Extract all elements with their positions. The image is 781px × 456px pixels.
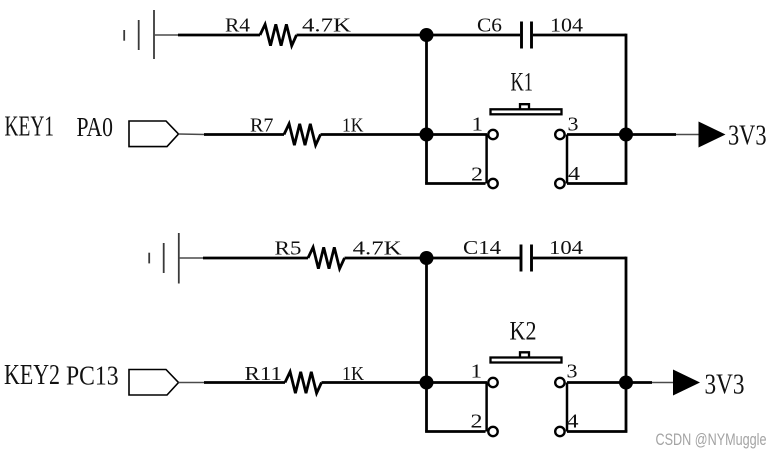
svg-text:3: 3: [568, 114, 579, 136]
svg-text:3V3: 3V3: [705, 370, 745, 401]
svg-text:R5: R5: [275, 238, 302, 260]
resistor R5 zigzag: [308, 247, 345, 268]
wire junction C to arrow: [626, 133, 676, 136]
svg-text:K1: K1: [511, 68, 534, 97]
svg-text:C6: C6: [477, 15, 502, 37]
svg-text:4: 4: [568, 163, 580, 185]
pin bar 1-2: [485, 135, 488, 184]
wire pin3 to junction F: [567, 381, 626, 384]
wire right vertical down to K2 row: [625, 257, 628, 383]
wire to resistor R5: [203, 257, 308, 260]
wire junction A down to K1 row: [425, 35, 428, 135]
wire right vertical down to K1 row: [625, 34, 628, 135]
junction node B: [420, 128, 434, 142]
svg-text:PC13: PC13: [66, 361, 119, 391]
wire bottom of left square K2: [425, 430, 485, 433]
wire junction F to arrow: [626, 381, 652, 384]
pin 3 circle K2: [555, 378, 564, 387]
pushbutton K2 plunger notch: [520, 352, 529, 357]
wire bottom of right square K2: [567, 430, 627, 433]
pin 2 circle: [488, 179, 497, 188]
svg-text:C14: C14: [463, 237, 501, 259]
wire to resistor R4: [178, 34, 260, 37]
resistor R4 zigzag: [260, 24, 297, 45]
wire thin from pentagon bottom: [179, 382, 206, 384]
svg-text:2: 2: [471, 164, 483, 186]
wire thin to arrow: [676, 134, 700, 136]
junction node top A: [420, 28, 434, 42]
pin bar 3-4 K2: [566, 383, 569, 432]
junction node F: [619, 376, 633, 390]
wire thin from pentagon: [179, 133, 206, 136]
pin 2 circle K2: [488, 427, 497, 436]
svg-text:KEY2: KEY2: [4, 359, 60, 391]
wire bottom of left square: [425, 182, 485, 185]
power symbol (battery bars) bottom: [149, 233, 179, 284]
wire junction F down: [625, 383, 628, 432]
resistor R7 zigzag: [284, 124, 321, 145]
wire R4 to C6: [297, 34, 521, 37]
connector pentagon PA0: [129, 121, 179, 147]
junction node C: [619, 128, 633, 142]
pushbutton K2 body: [491, 358, 562, 363]
pin 4 circle K2: [555, 427, 564, 436]
wire R7 to pin1: [321, 133, 488, 136]
svg-text:KEY1: KEY1: [5, 111, 55, 143]
svg-text:1: 1: [471, 361, 483, 383]
pin 4 circle: [555, 179, 564, 188]
pushbutton K1 plunger notch: [520, 104, 529, 109]
svg-text:K2: K2: [510, 317, 537, 346]
wire to resistor R7: [204, 133, 284, 136]
svg-text:104: 104: [549, 237, 583, 259]
wire junction C down: [625, 135, 628, 184]
pin 1 circle K2: [488, 378, 497, 387]
wire junction D down to K2 row: [425, 258, 428, 383]
wire bottom of right square: [567, 182, 627, 185]
wire pin3 to junction C: [567, 133, 626, 136]
junction node D: [420, 251, 434, 265]
junction node E: [420, 376, 434, 390]
power arrow 3V3 top: [699, 122, 726, 148]
resistor R11 zigzag: [285, 372, 322, 393]
wire thin from power to R5: [179, 257, 204, 259]
power symbol (battery bars) top: [124, 10, 154, 59]
capacitor C14 plates: [520, 245, 523, 272]
svg-text:2: 2: [471, 411, 483, 433]
wire junction E down: [425, 383, 428, 432]
connector pentagon PC13: [129, 370, 179, 396]
pin 3 circle: [555, 130, 564, 139]
svg-text:R4: R4: [225, 15, 250, 37]
svg-text:R7: R7: [250, 115, 274, 137]
svg-text:CSDN @NYMuggle: CSDN @NYMuggle: [656, 431, 767, 449]
svg-text:104: 104: [550, 15, 583, 37]
capacitor C6 plates: [520, 22, 523, 49]
svg-text:3: 3: [567, 361, 578, 383]
wire R5 to C14: [345, 257, 521, 260]
wire thin to arrow bottom: [652, 382, 674, 384]
wire C14 to right corner: [533, 257, 626, 260]
svg-text:3V3: 3V3: [728, 121, 767, 152]
pushbutton K1 body: [491, 109, 562, 114]
wire junction B down: [425, 135, 428, 184]
pin 1 circle: [488, 130, 497, 139]
svg-text:1: 1: [472, 114, 484, 136]
wire thin from power to R4: [154, 34, 179, 36]
pin bar 1-2 K2: [485, 383, 488, 432]
svg-text:4.7K: 4.7K: [353, 238, 403, 260]
wire R11 to pin1: [322, 381, 488, 384]
wire to resistor R11: [204, 381, 285, 384]
power arrow 3V3 bottom: [673, 370, 700, 396]
svg-text:R11: R11: [245, 363, 283, 385]
wire C6 to right corner: [533, 34, 626, 37]
svg-text:PA0: PA0: [77, 112, 114, 142]
svg-text:4.7K: 4.7K: [302, 15, 352, 37]
pin bar 3-4: [566, 135, 569, 184]
svg-text:4: 4: [567, 411, 579, 433]
